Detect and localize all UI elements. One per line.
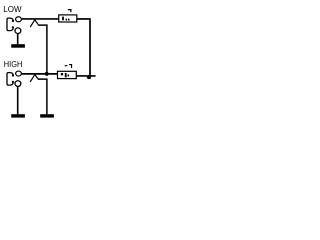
wire: output node to edge [76,75,95,77]
svg-text:LOW: LOW [3,4,22,14]
label R1 [68,10,71,13]
resistor R2 [58,71,77,78]
label R2 [65,65,72,69]
jack J1 tip contact [16,17,22,22]
wire: HIGH tip to resistor [22,73,58,75]
jack J1 sleeve contact [15,28,21,34]
value marks R2 [61,73,63,75]
jack J1 body tip nubs [12,20,14,22]
jack J2 body tip nubs [12,74,14,76]
resistor R1 [59,15,77,22]
node: LOW switch joins HIGH tip [45,72,49,76]
wire: HIGH switch to ground [38,79,47,114]
jack J2 (HIGH input) body [7,73,13,86]
svg-text:HIGH: HIGH [4,59,23,69]
ground (HIGH jack) [11,114,25,117]
node: output junction [87,75,91,79]
wire: LOW switch to HIGH tip node [38,25,47,73]
jack J1 shorting switch contact [30,20,39,27]
jack J1 (LOW input) body [7,18,13,31]
jack J2 sleeve contact [15,81,21,87]
jack J2 tip contact [16,71,22,76]
wire: LOW sleeve to ground [17,34,19,45]
wire: HIGH sleeve to ground [17,87,19,115]
jack J2 shorting switch contact [30,75,39,82]
value marks R1 [62,17,64,21]
ground (LOW jack) [11,44,25,48]
wire: LOW tip to resistor [22,18,59,20]
ground (HIGH switch) [40,114,54,117]
wire: R1 to output node [77,18,91,20]
